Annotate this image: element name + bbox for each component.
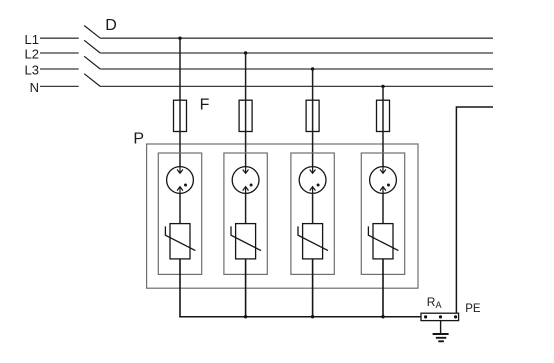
spark gap GDT4 trigger dot	[387, 184, 390, 187]
wire varistor RV3 to PE bus	[312, 259, 314, 317]
SPD module 1 box	[158, 153, 201, 274]
wire L2 outgoing	[100, 52, 493, 54]
ground symbol bar 1	[433, 333, 449, 335]
SPD module 4 box	[361, 153, 404, 274]
earth bar terminal dot 3	[454, 315, 457, 318]
ground symbol bar 2	[436, 337, 446, 339]
wire fuse F2 to spark gap	[245, 132, 247, 174]
fuse F1 body	[174, 100, 187, 131]
svg-text:L1: L1	[25, 32, 39, 47]
earth terminal bar	[421, 313, 459, 320]
fuse F4 body	[377, 100, 390, 131]
wire fuse F1 to spark gap	[179, 132, 181, 174]
varistor RV2 body	[236, 224, 256, 259]
svg-text:N: N	[30, 80, 39, 95]
wire drop 1: line to fuse F1	[179, 38, 181, 100]
SPD module 2 box	[224, 153, 267, 274]
fuse F4 element wire	[382, 100, 384, 131]
wire spark gap GDT3 to varistor RV3	[312, 193, 314, 223]
spark gap GDT4 circle	[370, 167, 397, 194]
wire N outgoing	[100, 85, 493, 87]
spark gap GDT3 lower electrode arrow (up)	[310, 187, 316, 194]
wire drop 3: line to fuse F3	[312, 69, 314, 100]
varistor RV2 diagonal stroke with tail	[231, 226, 261, 250]
switch D pole L2 blade	[84, 40, 100, 53]
node tap L2 junction dot	[244, 51, 247, 54]
ground symbol bar 3	[438, 340, 444, 342]
spark gap GDT3 upper electrode arrow (down)	[310, 166, 316, 174]
SPD module 3 box	[291, 153, 334, 274]
spark gap GDT4 upper electrode arrow (down)	[380, 166, 386, 174]
wire L3 incoming	[40, 68, 79, 70]
SPD enclosure P box	[147, 144, 418, 288]
wire L1 incoming	[40, 37, 79, 39]
varistor RV3 body	[303, 224, 323, 259]
spark gap GDT3 trigger dot	[317, 184, 320, 187]
ground symbol stem	[440, 321, 442, 334]
fuse F3 body	[306, 100, 319, 131]
svg-text:P: P	[133, 130, 144, 147]
svg-text:L3: L3	[25, 63, 39, 78]
node tap N junction dot	[381, 85, 384, 88]
wire N incoming	[40, 85, 79, 87]
switch D pole L1 blade	[84, 26, 100, 39]
svg-text:F: F	[200, 97, 210, 114]
spark gap GDT3 circle	[299, 167, 326, 194]
wire L1 outgoing	[100, 37, 493, 39]
fuse F2 body	[239, 100, 252, 131]
svg-text:PE: PE	[465, 303, 481, 315]
wire L3 outgoing	[100, 68, 493, 70]
wire drop 4: line to fuse F4	[382, 86, 384, 100]
spark gap GDT1 trigger dot	[184, 184, 187, 187]
fuse F1 element wire	[179, 100, 181, 131]
fuse F3 element wire	[312, 100, 314, 131]
wire drop 2: line to fuse F2	[245, 53, 247, 100]
node tap L3 junction dot	[311, 67, 314, 70]
wire fuse F4 to spark gap	[382, 132, 384, 174]
node PE bus junction dot 3	[311, 315, 314, 318]
svg-text:L2: L2	[25, 47, 39, 62]
spark gap GDT2 upper electrode arrow (down)	[243, 166, 249, 174]
node PE bus junction dot 2	[244, 315, 247, 318]
earth bar terminal dot 2	[439, 315, 442, 318]
spark gap GDT2 circle	[232, 167, 259, 194]
varistor RV4 diagonal stroke with tail	[368, 226, 398, 250]
switch D pole N blade	[84, 74, 100, 87]
wire varistor RV4 to PE bus	[382, 259, 384, 317]
wire spark gap GDT4 to varistor RV4	[382, 193, 384, 223]
wire PE bus (bottom)	[179, 316, 421, 318]
node PE bus junction dot 4	[381, 315, 384, 318]
svg-text:D: D	[105, 17, 117, 34]
spark gap GDT2 lower electrode arrow (up)	[243, 187, 249, 194]
varistor RV1 body	[170, 224, 190, 259]
wire spark gap GDT2 to varistor RV2	[245, 193, 247, 223]
spark gap GDT1 lower electrode arrow (up)	[177, 187, 183, 194]
spark gap GDT2 trigger dot	[250, 184, 253, 187]
varistor RV1 diagonal stroke with tail	[165, 226, 195, 250]
spark gap GDT4 lower electrode arrow (up)	[380, 187, 386, 194]
wire fuse F3 to spark gap	[312, 132, 314, 174]
switch D pole L3 blade	[84, 56, 100, 69]
varistor RV4 body	[373, 224, 393, 259]
node tap L1 junction dot	[178, 37, 181, 40]
spark gap GDT1 circle	[167, 167, 194, 194]
fuse F2 element wire	[245, 100, 247, 131]
wire spark gap GDT1 to varistor RV1	[179, 193, 181, 223]
wire PE conductor (right side, from supply to earth bar)	[456, 107, 493, 313]
spark gap GDT1 upper electrode arrow (down)	[177, 166, 183, 174]
wire L2 incoming	[40, 52, 79, 54]
earth bar terminal dot 1	[424, 315, 427, 318]
wire varistor RV1 to PE bus	[179, 259, 181, 317]
wire varistor RV2 to PE bus	[245, 259, 247, 317]
varistor RV3 diagonal stroke with tail	[298, 226, 328, 250]
